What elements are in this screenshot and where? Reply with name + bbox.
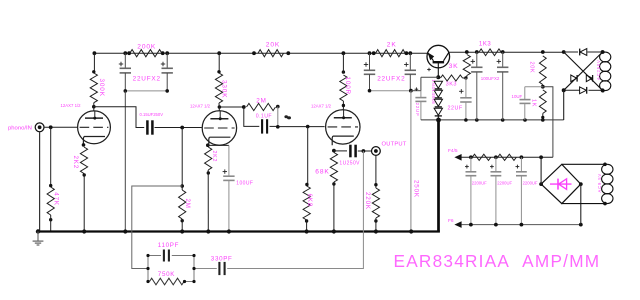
transformer secondary AC250V — [600, 52, 611, 62]
resistor 300K V1 plate load — [93, 53, 95, 73]
svg-text:AC250V: AC250V — [596, 59, 601, 80]
resistor 20K divider — [539, 56, 546, 85]
resistor 6K8 V3 grid — [307, 127, 309, 186]
junction mark — [284, 115, 288, 118]
network 110PF parallel 750K — [193, 256, 195, 282]
svg-text:EAR834RIAA AMP/MM: EAR834RIAA AMP/MM — [394, 251, 601, 271]
svg-text:2M: 2M — [256, 98, 266, 105]
resistor 2K rail — [376, 50, 406, 57]
svg-text:1N4148x6: 1N4148x6 — [431, 79, 436, 104]
capacitor 22UF (left) — [411, 90, 421, 92]
capacitor 10UF — [525, 86, 543, 88]
svg-text:330K: 330K — [221, 80, 228, 98]
resistor 47K input load — [50, 127, 52, 187]
transistor Q1 series regulator — [427, 45, 450, 68]
wire input shield to ground bus — [39, 132, 41, 232]
resistor 1K3 — [479, 49, 501, 56]
wire input to V1 grid — [44, 126, 78, 128]
resistor 1K divider — [539, 90, 546, 114]
node phono/IN input connector — [35, 123, 44, 132]
svg-text:F6: F6 — [448, 218, 454, 224]
svg-text:AC9.5V: AC9.5V — [597, 173, 602, 193]
svg-text:6K8: 6K8 — [306, 194, 313, 208]
wire thick ground return — [437, 120, 440, 232]
capacitor 2200UF 3 — [520, 157, 522, 172]
svg-text:300K: 300K — [98, 79, 105, 97]
svg-text:0.15UF250V: 0.15UF250V — [140, 112, 164, 117]
capacitor 2200UF 2 — [495, 157, 497, 172]
svg-text:1U250V: 1U250V — [339, 161, 360, 167]
svg-text:2K: 2K — [387, 42, 397, 49]
svg-text:3K: 3K — [449, 63, 459, 70]
svg-text:2200UF: 2200UF — [472, 180, 487, 185]
resistor 20K rail — [258, 50, 284, 57]
bridge rectifier D1-D4 HT — [564, 51, 578, 53]
svg-text:F4/5: F4/5 — [448, 148, 458, 154]
wire divider to heater rail — [543, 87, 553, 158]
svg-text:22UF: 22UF — [415, 103, 420, 117]
svg-text:22UF: 22UF — [448, 106, 463, 112]
svg-text:10UF: 10UF — [512, 94, 523, 99]
resistor 2M interstage — [247, 103, 276, 110]
svg-text:phono/IN: phono/IN — [8, 126, 32, 132]
svg-text:2200UF: 2200UF — [523, 180, 538, 185]
wire reference node line — [421, 119, 564, 121]
capacitor 100UFX2 — [476, 52, 478, 67]
svg-text:20K: 20K — [529, 62, 535, 74]
svg-text:12AX7 1/2: 12AX7 1/2 — [61, 103, 82, 108]
resistor heater CRC 1 — [472, 154, 491, 160]
node F4/5 heater feed — [454, 154, 461, 161]
svg-text:22UFX2: 22UFX2 — [377, 75, 405, 82]
svg-text:220K: 220K — [364, 192, 371, 210]
wire V2 plate to RC network — [219, 106, 243, 108]
wire B+ rail — [94, 52, 428, 54]
wire decoupling A to ground — [124, 91, 126, 232]
svg-text:OUTPUT: OUTPUT — [382, 141, 407, 147]
tube V1 12AX7 1/2 — [78, 111, 111, 144]
svg-text:0.1UF: 0.1UF — [256, 114, 272, 120]
svg-text:2K2: 2K2 — [211, 151, 217, 163]
node OUTPUT connector — [372, 147, 381, 156]
capacitor 1U250V output — [334, 150, 347, 152]
capacitor 22UFX2 pair A — [124, 53, 126, 68]
capacitor 22UFX2 pair B — [369, 53, 371, 70]
svg-text:3K3: 3K3 — [446, 81, 457, 87]
svg-text:110PF: 110PF — [158, 242, 179, 249]
node F6 heater return — [454, 221, 461, 228]
resistor 3K3 — [466, 76, 468, 79]
resistor 330K V2 plate load — [218, 53, 220, 73]
capacitor 2200UF 1 — [470, 157, 472, 172]
wire feedback from V3 cathode — [227, 151, 363, 269]
resistor 250K bleeder — [410, 91, 412, 232]
svg-text:22UFX2: 22UFX2 — [133, 75, 161, 82]
svg-text:2200UF: 2200UF — [497, 180, 512, 185]
svg-text:100R: 100R — [344, 77, 351, 95]
wire bridge to reference line — [563, 90, 565, 120]
svg-text:750K: 750K — [158, 271, 175, 278]
capacitor 100UF cathode bypass — [208, 144, 229, 146]
resistor 68K V3 cathode — [332, 149, 336, 153]
resistor 220K output load — [375, 155, 377, 188]
tube V2 12AX7 1/2 — [202, 111, 236, 145]
wire heater rail F6 — [461, 224, 580, 226]
resistor 2M V2 grid leak — [181, 128, 183, 191]
resistor 100R V3 plate — [342, 70, 345, 73]
svg-text:330PF: 330PF — [211, 256, 233, 263]
svg-text:2M: 2M — [184, 199, 191, 209]
resistor 2K2 V2 cathode — [206, 143, 210, 147]
svg-text:20K: 20K — [266, 42, 280, 49]
wire heater rail F4/5 — [461, 156, 553, 158]
svg-text:12AX7 1/2: 12AX7 1/2 — [311, 104, 332, 109]
svg-text:12AX7 1/2: 12AX7 1/2 — [190, 104, 211, 109]
svg-text:68K: 68K — [315, 168, 329, 175]
svg-text:100UFX2: 100UFX2 — [481, 76, 500, 81]
wire bridge R to F6 rail — [580, 184, 582, 225]
svg-text:1K3: 1K3 — [479, 41, 492, 47]
svg-text:1K: 1K — [530, 99, 536, 107]
bridge rectifier heater (diamond) — [541, 164, 581, 203]
svg-text:2K2: 2K2 — [72, 156, 79, 170]
svg-text:100UF: 100UF — [236, 181, 253, 187]
resistor heater CRC 2 — [498, 154, 517, 160]
wire to V3 grid — [278, 126, 325, 128]
capacitor 0.15UF250V coupling V1-V2 — [94, 107, 144, 128]
diode string 1N4148x6 — [436, 75, 440, 79]
wire bridge L to F4/5 rail — [540, 157, 542, 184]
resistor 200K decoupling — [130, 50, 162, 57]
capacitor 0.1UF interstage — [244, 107, 259, 126]
capacitor 330PF feedback — [218, 262, 220, 275]
ground symbol — [36, 229, 40, 233]
svg-text:250K: 250K — [412, 180, 419, 198]
wire ground bus — [38, 230, 440, 232]
svg-text:200K: 200K — [137, 43, 156, 50]
wire feedback branch to V2 grid — [132, 186, 182, 269]
wire raw rail — [449, 51, 564, 53]
resistor 2K2 V1 cathode — [82, 143, 86, 147]
transformer secondary AC9.5V — [562, 163, 605, 165]
tube V3 12AX7 1/2 — [326, 110, 360, 144]
capacitor 22UF (base) — [465, 78, 467, 98]
svg-text:47K: 47K — [52, 192, 59, 206]
resistor 3K — [463, 55, 470, 76]
